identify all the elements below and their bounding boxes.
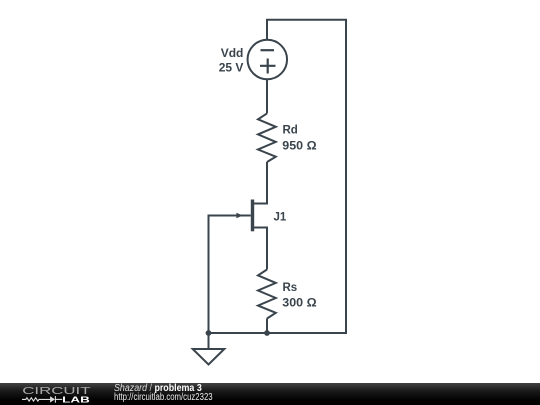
svg-text:J1: J1 [274,212,287,224]
svg-text:25 V: 25 V [219,61,244,75]
svg-text:LAB: LAB [62,395,90,405]
svg-text:300 Ω: 300 Ω [282,297,316,309]
svg-text:Rd: Rd [283,125,298,137]
svg-text:Rs: Rs [283,282,298,294]
svg-text:Vdd: Vdd [221,46,244,60]
svg-text:950 Ω: 950 Ω [282,141,316,153]
